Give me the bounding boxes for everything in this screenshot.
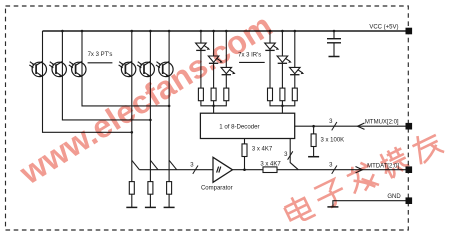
junction dot LED bus left <box>212 105 215 108</box>
phototransistor Q1 <box>29 61 46 77</box>
capacitor C1 <box>327 39 341 43</box>
junction dot emitter bus A1 <box>131 131 134 134</box>
wire PT A3 vertical <box>82 31 169 106</box>
IR LED D6 <box>290 67 305 74</box>
resistor LED L1 <box>198 88 203 101</box>
wire PT B3 vertical <box>168 31 170 182</box>
wire left LED group bus to decoder <box>201 101 226 106</box>
svg-text:www.elecfans.com: www.elecfans.com <box>13 7 279 192</box>
bus entry diagonal B2 <box>150 160 158 169</box>
svg-text:3: 3 <box>329 162 333 168</box>
wire LED chain R1 <box>269 31 271 88</box>
IR LED D2 <box>208 56 223 63</box>
bus slash MTDAT <box>332 166 337 174</box>
pin VCC <box>406 28 413 35</box>
svg-text:3 x 100K: 3 x 100K <box>321 138 345 144</box>
wire GND <box>333 201 406 207</box>
wire LED chain L2 <box>213 31 215 88</box>
ground GND stub <box>327 206 338 208</box>
svg-text:3: 3 <box>329 119 333 125</box>
decoder U1 <box>200 113 294 138</box>
svg-text:7x 3 PT's: 7x 3 PT's <box>88 52 113 58</box>
wire VCC top rail <box>43 30 406 32</box>
wire comparator input bus <box>139 169 213 171</box>
bus entry diagonal B1 <box>132 160 140 169</box>
svg-text:Comparator: Comparator <box>201 185 233 191</box>
junction dot 100K tap <box>312 125 315 128</box>
wire LED chain L3 <box>225 31 227 88</box>
wire LED chain L1 <box>200 31 202 88</box>
resistor 3x4K7 vertical <box>242 144 247 157</box>
phototransistor Q6 <box>156 61 173 77</box>
bus slash MTMUX <box>332 122 337 130</box>
wire PT A1 collector/emitter vertical <box>43 31 132 132</box>
comparator U2 <box>213 157 233 182</box>
ground under P1 <box>126 206 137 208</box>
pin GND <box>406 197 413 204</box>
wire right LED group bus to decoder <box>270 101 295 106</box>
watermark www.elecfans.com <box>13 7 279 192</box>
IR LED D1 <box>196 43 211 50</box>
junction dots on rail <box>61 30 64 33</box>
wire comparator output / MTDAT <box>233 169 406 171</box>
pin MTMUX <box>406 123 413 130</box>
wire capacitor stub <box>333 31 335 38</box>
bus slash comparator input <box>193 166 198 174</box>
wire PT B1 vertical <box>131 31 133 182</box>
ground under P2 <box>145 206 156 208</box>
IR LED D3 <box>221 67 236 74</box>
ground under 100K <box>308 156 319 158</box>
svg-text:MTMUX[2:0]: MTMUX[2:0] <box>365 120 399 126</box>
watermark chinese characters <box>281 128 444 227</box>
junction dot emitter bus A3 <box>168 105 171 108</box>
resistor LED R3 <box>292 88 297 101</box>
ground under P3 <box>164 206 175 208</box>
pulldown resistor P1 <box>129 182 134 195</box>
wire 100K tap <box>313 126 315 156</box>
bus entry diagonal B3 <box>169 160 177 169</box>
junction dot emitter bus A2 <box>149 119 152 122</box>
ground under C1 <box>329 56 340 58</box>
wire decoder bottom to 4K7 resistor <box>244 139 246 170</box>
wire PT B2 vertical <box>149 31 151 182</box>
wire LED chain R2 <box>281 31 283 88</box>
phototransistor Q2 <box>49 61 66 77</box>
resistor LED L3 <box>224 88 229 101</box>
pin MTDAT <box>406 166 413 173</box>
IR LED D5 <box>277 56 292 63</box>
phototransistor Q3 <box>69 61 86 77</box>
svg-text:3: 3 <box>190 162 194 168</box>
wire decoder to MTMUX <box>295 125 406 127</box>
IR LED D4 <box>265 43 280 50</box>
svg-text:1 of 8-Decoder: 1 of 8-Decoder <box>219 123 259 130</box>
svg-text:VCC (+5V): VCC (+5V) <box>369 25 398 31</box>
bus slash decoder second output <box>288 151 293 159</box>
pulldown resistor P3 <box>167 182 172 195</box>
wire PT A2 vertical <box>62 31 150 120</box>
svg-text:3 x 4K7: 3 x 4K7 <box>260 161 281 167</box>
svg-text:3 x 4K7: 3 x 4K7 <box>252 147 273 153</box>
wire pulldown stubs to ground <box>132 194 169 207</box>
wire LED chain R3 <box>294 31 296 88</box>
svg-text:3: 3 <box>284 152 288 158</box>
phototransistor Q5 <box>137 61 154 77</box>
wire decoder bottom second output with diagonal <box>290 139 298 170</box>
resistor LED R2 <box>280 88 285 101</box>
svg-text:GND: GND <box>387 194 401 200</box>
pulldown resistor P2 <box>148 182 153 195</box>
resistor LED R1 <box>268 88 273 101</box>
resistor 3x100K <box>311 134 316 147</box>
resistor 3x4K7 horizontal <box>263 167 277 173</box>
phototransistor Q4 <box>119 61 136 77</box>
junction dot comparator output <box>243 168 246 171</box>
resistor LED L2 <box>211 88 216 101</box>
junction dot LED bus right <box>281 105 284 108</box>
